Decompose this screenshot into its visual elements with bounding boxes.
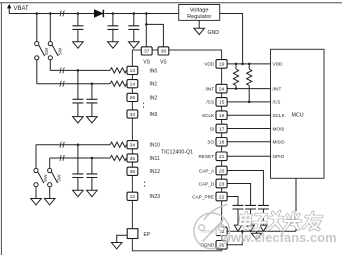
junction on VBAT rail x=36.8 <box>36 12 39 15</box>
ground of voltage regulator <box>194 20 219 35</box>
junction at 249.2,63.9 <box>248 63 251 66</box>
svg-text:Regulator: Regulator <box>187 14 211 20</box>
svg-text:33: 33 <box>130 112 136 118</box>
pin 17 SI <box>216 124 227 133</box>
junction IN0/C4 <box>77 69 80 72</box>
svg-text:22: 22 <box>219 194 225 200</box>
junction VS branch <box>145 23 148 26</box>
wire AGND ground rail <box>227 230 296 232</box>
junction IN11/C7 <box>91 157 94 160</box>
watermark white knockout under char <box>288 211 303 227</box>
junction on VBAT rail x=77.9 <box>77 12 80 15</box>
node VBAT power arrow <box>7 4 29 14</box>
resistor pull-up on CS <box>247 64 252 102</box>
svg-text:VS: VS <box>143 59 150 65</box>
pin 37 VS <box>141 47 152 55</box>
pin 32 AGND <box>216 227 227 236</box>
svg-text:CAP_D: CAP_D <box>199 181 215 186</box>
svg-text:19: 19 <box>219 62 225 68</box>
junction DGND drop <box>241 230 244 233</box>
junction at 236,88.6 <box>235 87 238 90</box>
svg-text:Voltage: Voltage <box>190 7 209 13</box>
junction IN1/C5 <box>91 82 94 85</box>
voltage regulator U2 <box>179 5 220 21</box>
svg-text:SW: SW <box>57 174 62 182</box>
pin 34 IN10 <box>127 141 138 149</box>
wire VDD <box>227 63 270 65</box>
wire regulator output to VDD rail <box>220 14 243 64</box>
wire SW2 to IN0 line <box>49 60 51 71</box>
svg-text:20: 20 <box>219 168 225 174</box>
diode D1 reverse protection <box>94 10 103 18</box>
capacitor C5 on IN1 <box>86 84 97 123</box>
wire SI-MOSI <box>227 128 270 130</box>
wire CAP_A to capacitor <box>227 171 263 206</box>
pin 19 VDD <box>216 60 227 69</box>
svg-text:SCLK: SCLK <box>273 113 286 118</box>
pin 15 /CS <box>216 98 227 107</box>
svg-text:16: 16 <box>219 113 225 119</box>
svg-text:15: 15 <box>219 100 225 106</box>
wire IN11 line <box>50 157 110 159</box>
pin 33 IN9 <box>127 110 138 118</box>
svg-text:VDD: VDD <box>273 62 284 67</box>
junction at 236,63.9 <box>235 63 238 66</box>
ground of EP <box>111 243 122 249</box>
pin 12 IN23 <box>127 192 138 200</box>
capacitor on CAP_D <box>245 205 256 231</box>
junction IN10/C6 <box>77 143 80 146</box>
pin 18 SO <box>216 138 227 147</box>
pin 35 IN11 <box>127 154 138 162</box>
switch SW1 <box>35 42 45 60</box>
wire IN1 line <box>37 83 110 85</box>
svg-text:34: 34 <box>130 143 136 149</box>
svg-text:SO: SO <box>207 140 214 145</box>
junction on VBAT rail x=112.9 <box>112 12 115 15</box>
svg-text:SCLK: SCLK <box>202 113 215 118</box>
svg-text:35: 35 <box>130 156 136 162</box>
wire SO-MISO <box>227 141 270 143</box>
svg-text:IN9: IN9 <box>150 112 158 118</box>
wire EP to ground <box>117 235 128 242</box>
fuse on IN0 line <box>60 68 65 74</box>
svg-text:/CS: /CS <box>273 100 281 105</box>
capacitor on CAP_PRE <box>233 205 244 231</box>
svg-text:EP: EP <box>144 232 151 238</box>
wire IN11 to switch SW4 <box>49 158 51 168</box>
svg-text:IN12: IN12 <box>150 169 161 175</box>
junction on VBAT rail x=133.8 <box>133 12 136 15</box>
wire SW4 to ground <box>49 187 51 199</box>
fuse on IN1 line <box>60 81 65 87</box>
svg-text:SW: SW <box>44 47 49 55</box>
svg-text:26: 26 <box>130 95 136 101</box>
wire IN10 to switch SW3 <box>35 145 37 169</box>
capacitor C6 on IN10 <box>72 145 83 197</box>
resistor series IN10 <box>110 142 126 147</box>
fuse on IN11 line <box>60 155 65 161</box>
svg-text:IN0: IN0 <box>150 68 158 74</box>
ellipsis between IN2 and IN9 <box>143 103 145 108</box>
svg-text:SW: SW <box>43 174 48 182</box>
wire IN10 line <box>36 144 110 146</box>
wire CAP_D to capacitor <box>227 184 250 206</box>
svg-text:IN23: IN23 <box>150 194 161 200</box>
svg-text:VDD: VDD <box>204 62 215 67</box>
svg-text:CAP_PRE: CAP_PRE <box>192 194 214 199</box>
junction on VBAT rail x=50.3 <box>49 12 52 15</box>
svg-text:MOSI: MOSI <box>273 126 285 131</box>
wire VBAT rail to diode anode <box>9 13 94 15</box>
capacitor C2 VS rail bypass <box>107 14 118 49</box>
op MCU block <box>271 49 325 178</box>
figure top border <box>0 2 342 4</box>
ellipsis between IN12 and IN23 <box>144 182 146 187</box>
svg-text:CAP_A: CAP_A <box>199 168 215 173</box>
svg-text:18: 18 <box>219 140 225 146</box>
svg-text:13: 13 <box>130 68 136 74</box>
watermark chinese characters outlined <box>239 212 322 230</box>
pin 23 CAP_D <box>216 179 227 188</box>
watermark fade over AGND area <box>193 217 223 237</box>
wire SW3 to ground <box>35 187 37 199</box>
switch SW2 <box>48 42 58 60</box>
capacitor C7 on IN11 <box>86 158 97 197</box>
pin 22 CAP_PRE <box>216 192 227 201</box>
svg-text:/CS: /CS <box>206 100 214 105</box>
svg-text:/INT: /INT <box>273 86 282 91</box>
pin 24 /INT <box>216 84 227 93</box>
svg-text:www.elecfans.com: www.elecfans.com <box>220 230 337 245</box>
pin 20 CAP_A <box>216 166 227 175</box>
svg-text:GND: GND <box>208 30 220 36</box>
watermark logo circle <box>194 205 230 249</box>
svg-text:23: 23 <box>219 181 225 187</box>
resistor pull-up on INT <box>233 64 238 89</box>
junction at 242.6,63.9 <box>241 63 244 66</box>
pin 36 IN12 <box>127 167 138 175</box>
capacitor C1 VS rail bypass <box>72 14 83 49</box>
wire CS <box>227 101 270 103</box>
pin 26 IN2 <box>127 93 138 101</box>
svg-text:MISO: MISO <box>273 140 285 145</box>
svg-text:17: 17 <box>219 126 225 132</box>
wire SCLK <box>227 114 270 116</box>
pin 25 DGND <box>216 241 227 250</box>
figure left border <box>0 3 2 255</box>
svg-text:38: 38 <box>161 49 167 55</box>
svg-text:12: 12 <box>130 194 136 200</box>
capacitor C3 VS rail bypass <box>128 14 139 49</box>
resistor series IN0 <box>110 68 126 73</box>
pin EP exposed pad <box>127 229 138 239</box>
ground symbol of rail <box>251 231 262 239</box>
wire IN0 line <box>50 69 110 71</box>
svg-text:/INT: /INT <box>205 86 214 91</box>
svg-text:21: 21 <box>219 154 225 160</box>
capacitor on CAP_A <box>258 205 269 231</box>
wire DGND to rail <box>227 231 242 245</box>
switch SW4 <box>48 168 58 186</box>
svg-text:SI: SI <box>210 126 214 131</box>
wire RESET-GPIO <box>227 155 270 157</box>
wire CAP_PRE to capacitor <box>227 197 238 206</box>
svg-text:IN10: IN10 <box>150 143 161 149</box>
junction on VBAT rail x=146.3 <box>145 12 148 15</box>
ground of SW3 <box>31 199 42 205</box>
wire diode cathode to voltage regulator <box>105 13 179 15</box>
svg-text:VBAT: VBAT <box>14 6 30 12</box>
svg-text:RESET: RESET <box>199 154 215 159</box>
svg-text:IN11: IN11 <box>150 156 160 162</box>
pin 21 RESET <box>216 152 227 161</box>
fuse on IN10 line <box>60 142 65 148</box>
svg-text:IN1: IN1 <box>150 82 158 88</box>
watermark url text <box>220 230 337 245</box>
wire VBAT to switch SW2 <box>49 14 51 42</box>
pin 38 VS <box>158 47 169 55</box>
wire VBAT to switch SW1 <box>36 14 38 42</box>
svg-text:TIC12400-Q1: TIC12400-Q1 <box>161 150 193 156</box>
ground of SW4 <box>44 199 55 205</box>
junction ground symbol <box>255 230 258 233</box>
wire SW1 to IN1 line <box>36 60 38 84</box>
junction at 249.2,101.9 <box>248 101 251 104</box>
fuse on VBAT rail <box>60 11 65 17</box>
wire resistor to pin 13 <box>126 69 128 71</box>
pin 13 IN0 <box>127 66 138 74</box>
wire INT <box>227 88 270 90</box>
switch SW3 <box>34 168 44 186</box>
svg-text:SW: SW <box>57 47 62 55</box>
pin 14 IN1 <box>127 80 138 88</box>
pin 16 SCLK <box>216 111 227 120</box>
wire MCU ground <box>295 178 297 231</box>
svg-text:36: 36 <box>130 169 136 175</box>
wire VS pins branch <box>146 14 163 47</box>
svg-text:24: 24 <box>219 86 225 92</box>
capacitor C4 on IN0 <box>72 70 83 123</box>
svg-text:14: 14 <box>130 82 136 88</box>
svg-text:VS: VS <box>160 59 167 65</box>
svg-text:37: 37 <box>144 49 150 55</box>
resistor series IN1 <box>110 81 126 86</box>
svg-text:GPIO: GPIO <box>273 154 285 159</box>
op IC U1 TIC12400-Q1 body <box>132 50 221 251</box>
resistor series IN11 <box>110 155 126 160</box>
svg-text:MCU: MCU <box>292 113 304 119</box>
svg-text:IN2: IN2 <box>150 95 158 101</box>
